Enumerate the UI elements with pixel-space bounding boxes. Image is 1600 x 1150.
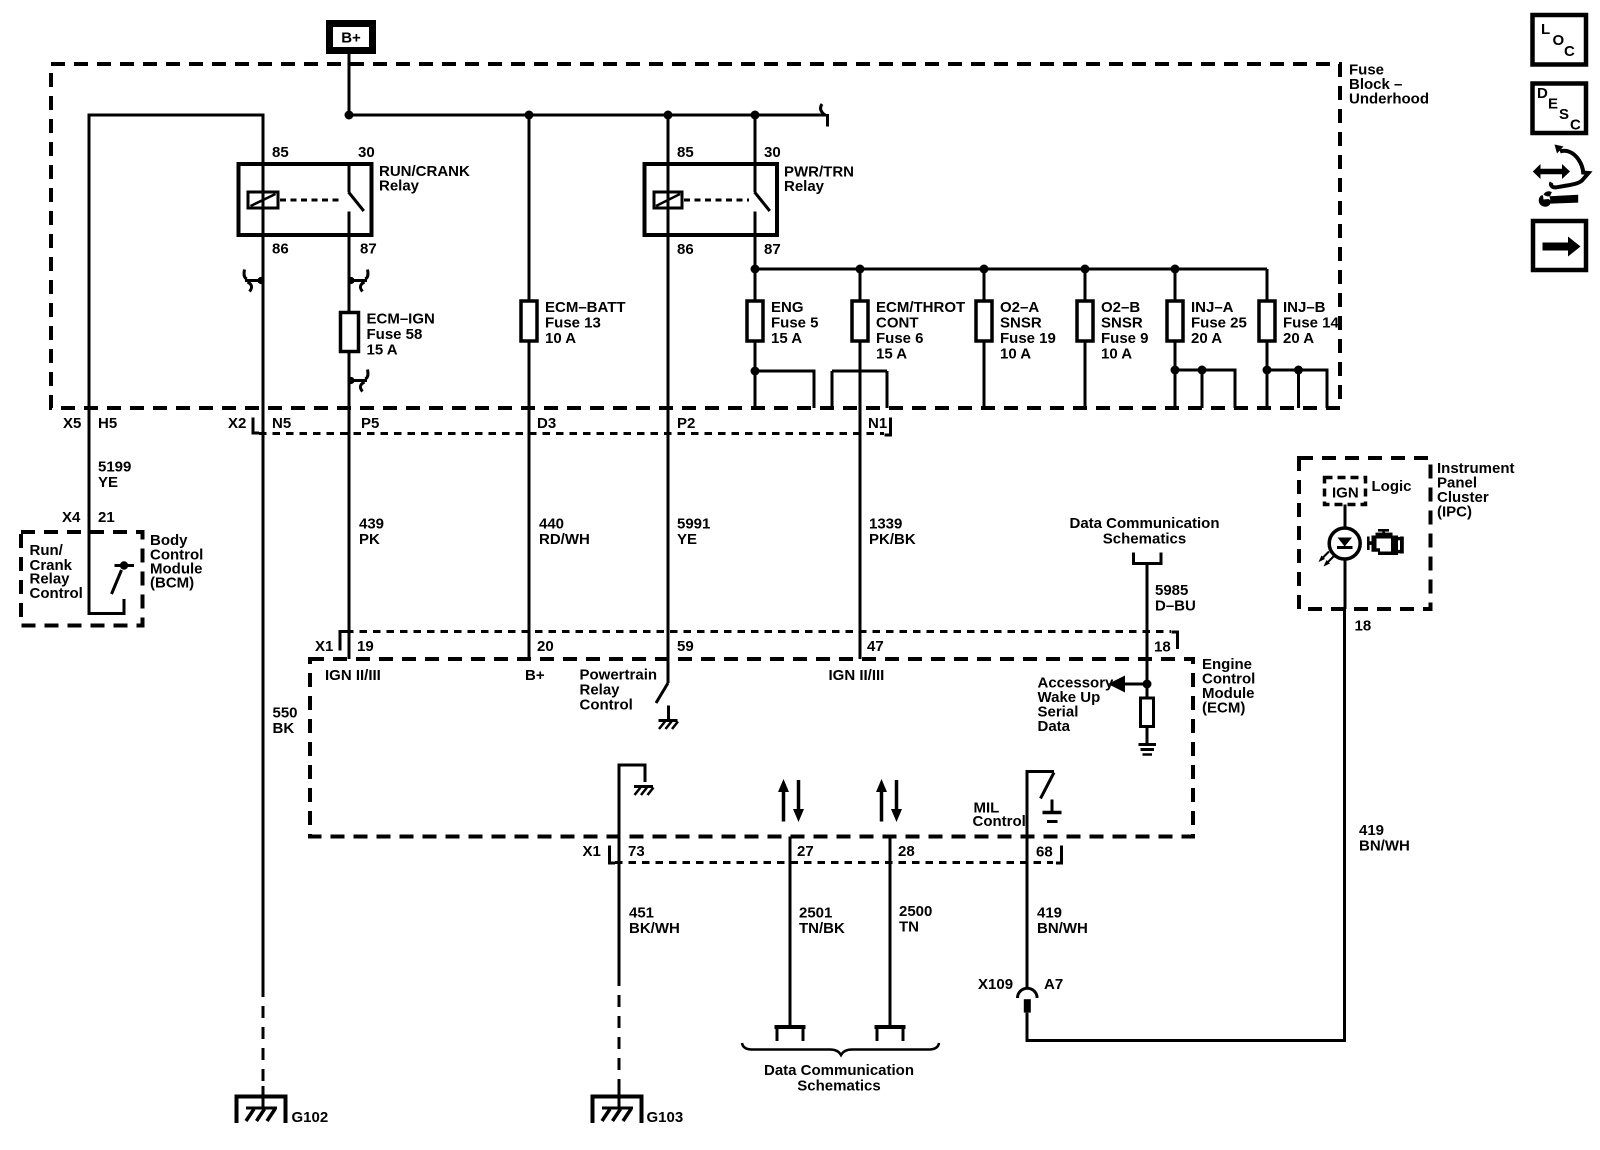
net label 1339 PK/BK — [869, 516, 916, 549]
svg-text:Fuse 13: Fuse 13 — [545, 315, 601, 332]
net label 440 RD/WH — [539, 516, 590, 549]
ground at ECM pin 73 — [634, 787, 654, 796]
wire 5985 D-BU — [1146, 564, 1149, 660]
label: Engine Control Module (ECM) — [1202, 656, 1255, 717]
svg-text:E: E — [1548, 96, 1558, 113]
connector X5 labels — [63, 415, 117, 432]
svg-text:B+: B+ — [525, 667, 545, 684]
svg-text:N5: N5 — [272, 415, 291, 432]
wire: fuse 5 output loop — [755, 371, 814, 408]
icon: schematic navigation (arrow + wrench) — [1533, 145, 1589, 207]
net label 5991 YE — [677, 516, 710, 549]
wire 451 BK/WH dashed — [618, 974, 621, 1086]
svg-text:20 A: 20 A — [1283, 330, 1314, 347]
wire: K2 pin 86 to ECM pin 59 (5991 YE) — [667, 235, 670, 659]
icon: LOC box — [1533, 15, 1587, 65]
svg-text:TN/BK: TN/BK — [799, 920, 845, 937]
wire: ECM pin 18 internal — [1146, 659, 1149, 698]
node: fuse 14 output junction b — [1294, 366, 1303, 375]
svg-text:30: 30 — [358, 144, 375, 161]
node: bus junction fuse 19 — [980, 265, 989, 274]
svg-text:ECM/THROT: ECM/THROT — [876, 299, 965, 316]
net label 439 PK — [359, 516, 384, 549]
svg-text:419: 419 — [1359, 822, 1384, 839]
IGN feed box (dashed) — [1325, 478, 1366, 505]
ECM serial data arrow — [1108, 676, 1147, 693]
svg-text:X1: X1 — [583, 843, 601, 860]
svg-text:D–BU: D–BU — [1155, 598, 1196, 615]
svg-text:A7: A7 — [1044, 976, 1063, 993]
svg-text:87: 87 — [360, 241, 377, 258]
wire: fuse 5 output stub — [754, 341, 757, 408]
svg-text:X109: X109 — [978, 976, 1013, 993]
svg-text:H5: H5 — [98, 415, 117, 432]
svg-text:PK/BK: PK/BK — [869, 531, 916, 548]
wire: K1 pin 87 to fuse 58 — [348, 235, 351, 313]
svg-text:C: C — [1564, 43, 1575, 60]
svg-text:S: S — [1559, 106, 1569, 123]
svg-text:19: 19 — [357, 638, 374, 655]
node: bus junction fuse 9 — [1081, 265, 1090, 274]
terminal hook below fuse 58 — [347, 370, 368, 392]
wire: fuse 6 to ECM pin 47 (1339 PK/BK) — [859, 341, 862, 659]
node: bus junction fuse 25 — [1171, 265, 1180, 274]
wire: fuse 14 middle stub — [1297, 370, 1300, 408]
wire: fuse 13 to ECM pin 20 (440 RD/WH) — [528, 341, 531, 659]
wire: resistor to ground — [1146, 727, 1149, 744]
net label 5985 D-BU — [1155, 582, 1196, 615]
svg-text:BK/WH: BK/WH — [629, 920, 680, 937]
svg-text:O2–A: O2–A — [1000, 299, 1039, 316]
svg-text:Data Communication: Data Communication — [1069, 515, 1219, 532]
bidirectional data arrows at pin 27 — [778, 779, 804, 822]
node: fuse 5 output junction — [751, 367, 760, 376]
svg-text:5199: 5199 — [98, 459, 131, 476]
svg-text:27: 27 — [797, 843, 814, 860]
svg-text:439: 439 — [359, 516, 384, 533]
wire: fuse 14 output loop — [1267, 370, 1327, 408]
fuse ECM-IGN Fuse 58 15A — [341, 311, 435, 359]
fuse ECM-BATT Fuse 13 10A — [521, 299, 626, 347]
node: fuse 13 feed junction — [525, 111, 534, 120]
ECM pin 68 MIL driver switch — [1027, 772, 1054, 864]
svg-text:Schematics: Schematics — [797, 1078, 880, 1095]
terminal at wire 2501 end — [775, 1027, 806, 1041]
label: Instrument Panel Cluster (IPC) — [1437, 460, 1515, 521]
svg-text:X1: X1 — [315, 638, 333, 655]
svg-text:550: 550 — [273, 705, 298, 722]
svg-text:Schematics: Schematics — [1103, 531, 1186, 548]
label: Accessory Wake Up Serial Data — [1038, 675, 1115, 736]
svg-text:Fuse 58: Fuse 58 — [367, 326, 423, 343]
svg-text:59: 59 — [677, 638, 694, 655]
svg-text:INJ–B: INJ–B — [1283, 299, 1326, 316]
bidirectional data arrows at pin 28 — [876, 779, 902, 822]
svg-text:(ECM): (ECM) — [1202, 700, 1245, 717]
svg-text:Fuse 6: Fuse 6 — [876, 330, 924, 347]
svg-text:P2: P2 — [677, 415, 695, 432]
connector X4 labels — [62, 509, 115, 526]
relay K1 RUN/CRANK Relay — [239, 144, 470, 258]
node: bus junction fuse 6 — [856, 265, 865, 274]
net label 419 BN/WH — [1037, 905, 1088, 938]
wire: bus to fuse 19 — [983, 269, 986, 301]
svg-text:15 A: 15 A — [771, 330, 802, 347]
net label 2501 TN/BK — [799, 905, 845, 938]
svg-text:85: 85 — [272, 144, 289, 161]
svg-text:G103: G103 — [647, 1109, 684, 1126]
svg-text:68: 68 — [1036, 844, 1053, 861]
wire: fuse 58 to ECM pin 19 (439 PK) — [348, 352, 351, 660]
net label 419 BN/WH (IPC side) — [1359, 822, 1410, 855]
svg-text:TN: TN — [899, 919, 919, 936]
svg-text:30: 30 — [764, 144, 781, 161]
wire: fuse 6 right stub — [886, 371, 889, 408]
wire: fuse 25 middle stub — [1201, 370, 1204, 408]
label: Body Control Module (BCM) — [150, 532, 203, 592]
BCM driver switch — [112, 561, 135, 594]
svg-text:85: 85 — [677, 144, 694, 161]
svg-text:47: 47 — [867, 638, 884, 655]
wire: X109 to IPC pin 18 — [1027, 609, 1345, 1041]
label: MIL Control — [973, 800, 1026, 831]
wire: fuse 6 left stub — [831, 371, 834, 408]
svg-text:2500: 2500 — [899, 903, 932, 920]
ground at ECM pin 59 driver — [659, 721, 679, 730]
wire: bus to fuse 9 — [1084, 269, 1087, 301]
svg-text:Data: Data — [1038, 718, 1071, 735]
svg-text:P5: P5 — [361, 415, 379, 432]
wire: BCM pin 21 internal — [89, 532, 124, 614]
wire: fuse 6 output crossbar — [832, 370, 887, 373]
svg-text:X2: X2 — [228, 415, 246, 432]
svg-text:SNSR: SNSR — [1000, 315, 1042, 332]
svg-text:SNSR: SNSR — [1101, 315, 1143, 332]
wire 419 BN/WH from ECM pin 68 — [1026, 863, 1029, 989]
ground at ECM pin 18 resistor (3-bar) — [1139, 745, 1157, 755]
wire: indicator to IPC pin 18 — [1344, 559, 1347, 609]
terminal hook on K1 pin 86 — [244, 270, 265, 292]
svg-text:IGN II/III: IGN II/III — [829, 667, 885, 684]
node: fuse 25 output junction a — [1171, 366, 1180, 375]
svg-text:X4: X4 — [62, 509, 81, 526]
svg-text:419: 419 — [1037, 905, 1062, 922]
svg-text:(IPC): (IPC) — [1437, 504, 1472, 521]
svg-text:INJ–A: INJ–A — [1191, 299, 1234, 316]
svg-text:Fuse 14: Fuse 14 — [1283, 315, 1340, 332]
svg-text:Control: Control — [580, 697, 633, 714]
svg-text:440: 440 — [539, 516, 564, 533]
svg-text:2501: 2501 — [799, 905, 832, 922]
svg-text:C: C — [1570, 117, 1581, 134]
relay K2 PWR/TRN Relay — [645, 144, 855, 258]
ground at MIL driver (2-bar) — [1043, 800, 1062, 822]
ground G103 — [593, 1097, 684, 1127]
wire 451 BK/WH solid — [618, 863, 621, 974]
svg-text:15 A: 15 A — [367, 342, 398, 359]
svg-text:RD/WH: RD/WH — [539, 531, 590, 548]
svg-text:O: O — [1553, 32, 1565, 49]
svg-text:20: 20 — [537, 638, 554, 655]
terminal at wire 2500 end — [875, 1027, 906, 1041]
connector X1 bottom row (73 27 28 68) — [583, 843, 1062, 863]
check engine icon — [1367, 529, 1404, 555]
fuse block - underhood (dashed box) — [51, 64, 1340, 408]
svg-text:ECM–BATT: ECM–BATT — [545, 299, 626, 316]
node: relay K2 pin 30 feed junction — [751, 111, 760, 120]
wire: fuse 9 output stub — [1084, 341, 1087, 408]
fuse ENG Fuse 5 15A — [747, 299, 819, 347]
svg-text:PK: PK — [359, 531, 380, 548]
svg-text:5991: 5991 — [677, 516, 710, 533]
wire 550 BK dashed section — [262, 985, 265, 1086]
terminal hook on K1 pin 87 — [347, 270, 368, 292]
svg-text:10 A: 10 A — [1101, 346, 1132, 363]
wire: B+ drop — [348, 51, 351, 116]
svg-text:X5: X5 — [63, 415, 81, 432]
wire: top feed bus — [349, 114, 826, 117]
instrument panel cluster IPC (dashed box) — [1299, 458, 1431, 609]
svg-text:Fuse 19: Fuse 19 — [1000, 330, 1056, 347]
fuse O2-B SNSR Fuse 9 10A — [1077, 299, 1149, 363]
ECM pin 59 driver switch — [656, 659, 669, 720]
svg-text:L: L — [1541, 21, 1550, 38]
svg-text:15 A: 15 A — [876, 346, 907, 363]
label: Run/Crank Relay Control — [30, 542, 83, 602]
net label 5199 YE — [98, 459, 131, 492]
wire 2501 TN/BK — [789, 837, 792, 1026]
svg-text:451: 451 — [629, 905, 654, 922]
svg-text:ENG: ENG — [771, 299, 804, 316]
svg-text:IGN: IGN — [1332, 485, 1359, 502]
brace: data communication schematics — [742, 1043, 939, 1055]
svg-text:Fuse 25: Fuse 25 — [1191, 315, 1247, 332]
wire: bus to K2 pin 85 — [667, 115, 670, 164]
wire: bus to fuse 25 — [1174, 269, 1177, 301]
resistor in ECM pin 18 path — [1141, 698, 1154, 727]
fuse INJ-B Fuse 14 20A — [1259, 299, 1340, 347]
fuse ECM/THROT CONT Fuse 6 15A — [852, 299, 965, 363]
svg-text:BN/WH: BN/WH — [1359, 838, 1410, 855]
battery feed B+ box — [330, 24, 373, 51]
svg-text:Logic: Logic — [1372, 478, 1412, 495]
node: serial data junction — [1143, 680, 1152, 689]
svg-text:18: 18 — [1154, 639, 1171, 656]
ECM pin 73 internal wire — [619, 765, 645, 863]
connector X1 top row (19 20 59 47 18) — [315, 632, 1178, 656]
svg-text:Underhood: Underhood — [1349, 91, 1429, 108]
wire: fuse 14 output stub — [1266, 341, 1269, 408]
engine control module ECM (dashed box) — [310, 659, 1193, 837]
wire: G103 ground stub — [618, 1086, 621, 1109]
svg-text:Data Communication: Data Communication — [764, 1062, 914, 1079]
MIL indicator LED — [1319, 528, 1361, 567]
svg-text:73: 73 — [628, 843, 645, 860]
terminal hook at bus end — [821, 104, 828, 127]
node: fuse 25 output junction b — [1198, 366, 1207, 375]
svg-text:BK: BK — [273, 720, 295, 737]
net label 2500 TN — [899, 903, 932, 936]
node: fused bus junction at fuse 5 — [751, 265, 760, 274]
svg-text:N1: N1 — [868, 415, 887, 432]
svg-text:86: 86 — [272, 241, 289, 258]
connector X2 row (N5 P5 D3 P2 N1) — [228, 415, 891, 435]
icon: next arrow box — [1533, 221, 1586, 270]
wire: bus corner to fuse 14 — [1266, 269, 1269, 301]
wire: BCM run/crank control to K1 coil 85 — [89, 115, 263, 532]
node: B+ bus junction — [345, 111, 354, 120]
svg-text:28: 28 — [898, 843, 915, 860]
svg-text:87: 87 — [764, 241, 781, 258]
fuse INJ-A Fuse 25 20A — [1167, 299, 1247, 347]
svg-text:10 A: 10 A — [545, 330, 576, 347]
svg-text:18: 18 — [1355, 618, 1372, 635]
wire: bus to fuse 5 — [754, 269, 757, 301]
svg-text:5985: 5985 — [1155, 582, 1188, 599]
ground G102 — [237, 1097, 329, 1127]
label: Data Communication Schematics (bottom) — [764, 1062, 914, 1095]
wire: bus to fuse 6 — [859, 269, 862, 301]
svg-text:Control: Control — [973, 813, 1026, 830]
svg-text:Control: Control — [30, 585, 83, 602]
svg-text:O2–B: O2–B — [1101, 299, 1140, 316]
svg-text:(BCM): (BCM) — [150, 575, 194, 592]
svg-text:CONT: CONT — [876, 315, 919, 332]
svg-text:Fuse 5: Fuse 5 — [771, 315, 819, 332]
fuse O2-A SNSR Fuse 19 10A — [976, 299, 1056, 363]
svg-text:D: D — [1537, 85, 1548, 102]
svg-text:1339: 1339 — [869, 516, 902, 533]
wire: IGN to indicator — [1344, 505, 1347, 529]
svg-text:Relay: Relay — [379, 178, 420, 195]
wire 2500 TN — [889, 837, 892, 1026]
svg-text:YE: YE — [677, 531, 697, 548]
icon: DESC box — [1533, 84, 1587, 134]
svg-text:D3: D3 — [537, 415, 556, 432]
label: Powertrain Relay Control — [580, 667, 658, 714]
svg-text:20 A: 20 A — [1191, 330, 1222, 347]
wire: fused B+ bus — [755, 268, 1267, 271]
wire: bus to fuse 13 — [528, 115, 531, 301]
svg-text:G102: G102 — [292, 1109, 329, 1126]
svg-text:Fuse 9: Fuse 9 — [1101, 330, 1149, 347]
svg-text:IGN II/III: IGN II/III — [325, 667, 381, 684]
body control module BCM (dashed box) — [21, 532, 143, 626]
svg-text:B+: B+ — [341, 30, 361, 47]
wire: K1 pin 86 down (550 BK upper) — [262, 235, 265, 985]
svg-text:21: 21 — [98, 509, 115, 526]
svg-text:BN/WH: BN/WH — [1037, 920, 1088, 937]
node: fuse 14 output junction a — [1263, 366, 1272, 375]
off-page bracket to data schematics — [1134, 553, 1162, 564]
wire: fuse 19 output stub — [983, 341, 986, 408]
wire: G102 ground stub — [262, 1086, 265, 1109]
wire: K2 pin 87 to fused bus — [754, 235, 757, 269]
wire: fuse 25 output stub — [1174, 341, 1177, 408]
wire: bus to K2 pin 30 — [754, 115, 757, 164]
connector X109 pin A7 — [978, 976, 1063, 1013]
node: relay K2 pin 85 feed junction — [664, 111, 673, 120]
net label 451 BK/WH — [629, 905, 680, 938]
svg-text:10 A: 10 A — [1000, 346, 1031, 363]
svg-text:86: 86 — [677, 241, 694, 258]
wire: fuse 25 output loop — [1175, 370, 1235, 408]
svg-text:Relay: Relay — [784, 178, 825, 195]
svg-text:YE: YE — [98, 474, 118, 491]
svg-text:ECM–IGN: ECM–IGN — [367, 311, 435, 328]
label: Data Communication Schematics (top) — [1069, 515, 1219, 548]
label: Fuse Block - Underhood — [1349, 62, 1429, 108]
net label 550 BK — [273, 705, 298, 738]
